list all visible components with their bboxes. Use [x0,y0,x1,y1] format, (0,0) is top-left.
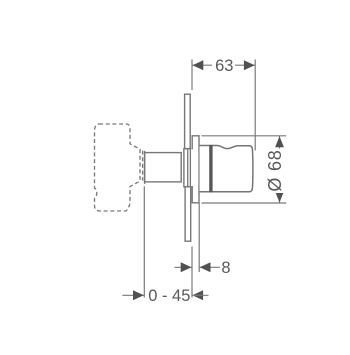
stem end cap [144,151,146,184]
dim 0-45 right arrow [192,290,203,300]
svg-text:0 - 45: 0 - 45 [148,287,190,305]
dim 63 label [212,57,235,75]
dim d68 bottom extension line [202,202,287,204]
dim 8 left extension line [191,247,193,298]
hub bore white-out [191,149,198,186]
hub [192,136,199,203]
dim 63 line [192,64,255,66]
plate strip bottom [185,187,191,241]
stem [145,153,182,182]
dim 63 right extension line [254,60,256,151]
dim 8 right arrow [200,262,211,272]
handle inner dashed line [142,151,144,181]
dim d68 down arrow [275,192,284,203]
dim 0-45 left arrow [133,290,144,300]
dim 63 left extension line [191,60,193,91]
collar inner line [187,149,189,187]
dim d68 label [265,149,287,194]
dim d68 up arrow [275,136,284,147]
body [200,146,253,192]
dim d68 top extension line [202,135,287,137]
dim 0-45 left extension line [143,186,145,297]
svg-text:63: 63 [215,57,233,75]
dim 63 right arrow [244,60,255,70]
collar [184,149,191,187]
dim 8 left arrow [181,262,192,272]
svg-text:Ø 68: Ø 68 [265,149,285,191]
svg-text:8: 8 [221,259,230,277]
plate strip top [185,94,191,148]
body dark bar [209,145,212,193]
dim 8 right extension line [198,203,200,272]
dim 8 right tail [199,266,220,268]
dim 0-45 left tail [122,294,144,296]
dim 63 left arrow [193,60,204,70]
handle (dashed outline) [95,124,143,211]
dim d68 line [279,136,281,203]
dim 8 left tail [175,266,193,268]
dim 0-45 right tail [192,294,209,296]
